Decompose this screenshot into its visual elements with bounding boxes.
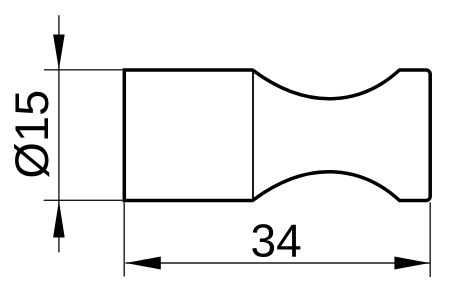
svg-text:Ø15: Ø15 <box>5 90 58 179</box>
svg-text:34: 34 <box>251 214 302 266</box>
